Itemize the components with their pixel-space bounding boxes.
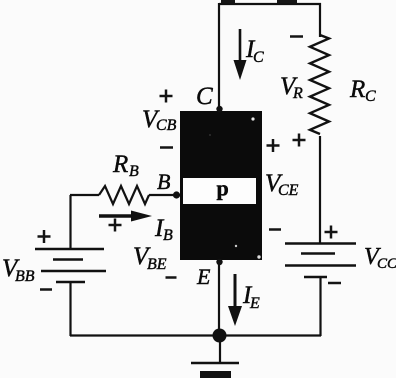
svg-text:R: R	[292, 85, 303, 102]
svg-text:E: E	[249, 295, 260, 312]
svg-text:B: B	[157, 169, 170, 194]
svg-text:E: E	[196, 264, 211, 289]
svg-text:R: R	[349, 76, 365, 103]
svg-text:BE: BE	[147, 256, 167, 273]
svg-text:C: C	[196, 83, 213, 110]
svg-text:p: p	[217, 176, 229, 201]
svg-text:CC: CC	[377, 256, 396, 272]
svg-text:CB: CB	[156, 117, 177, 134]
svg-text:C: C	[253, 49, 264, 66]
svg-text:B: B	[163, 227, 173, 244]
svg-text:R: R	[112, 151, 128, 178]
svg-text:CE: CE	[278, 182, 299, 199]
svg-text:C: C	[365, 88, 376, 105]
svg-text:BB: BB	[15, 268, 35, 285]
svg-text:B: B	[129, 163, 139, 180]
